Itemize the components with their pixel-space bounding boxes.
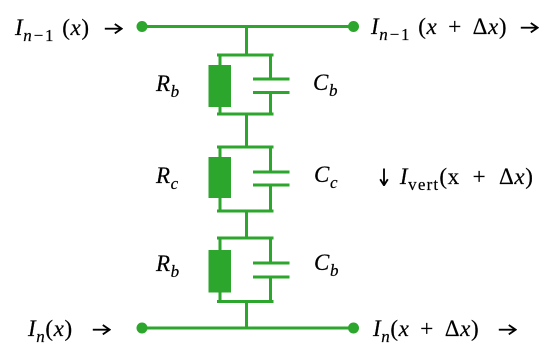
capacitor Cb (bottom) plates [253, 262, 290, 265]
wire block2 top bar [219, 146, 273, 149]
wire block1 right branch lower [269, 93, 272, 115]
label capacitor Cc middle [314, 163, 338, 186]
wire stem block1-block2 [245, 114, 248, 147]
wire block2 right branch lower [269, 185, 272, 211]
wire block3 top bar [219, 237, 273, 240]
wire block1 top bar [219, 54, 273, 57]
wire block2 left branch upper [219, 147, 222, 158]
label current In-1(x+dx) leaving top-right [371, 15, 539, 38]
wire stem top [245, 27, 248, 56]
wire block1 left branch lower [219, 106, 222, 114]
wire block3 left branch upper [219, 238, 222, 251]
wire top horizontal [142, 25, 354, 28]
node In(x) left dot [137, 323, 148, 334]
wire block1 right branch upper [269, 55, 272, 79]
capacitor Cc (middle) plates [253, 171, 290, 174]
wire bottom horizontal [142, 327, 354, 330]
node In-1(x) left dot [137, 21, 148, 32]
capacitor Cb (top) plates [253, 78, 290, 81]
resistor Rb (top) [209, 65, 232, 107]
wire stem bottom [245, 302, 248, 329]
label resistor Rc middle [156, 164, 179, 187]
label current In(x+dx) leaving bottom-right [373, 317, 517, 340]
node In(x+dx) right dot [348, 323, 359, 334]
label capacitor Cb top [313, 71, 338, 94]
wire block3 bottom bar [219, 300, 273, 303]
label resistor Rb bottom [156, 252, 180, 275]
wire block3 right branch lower [269, 277, 272, 302]
wire block2 left branch lower [219, 197, 222, 211]
resistor Rc (middle) [209, 157, 232, 198]
label current In(x) entering bottom-left [28, 317, 111, 340]
label resistor Rb top [156, 72, 180, 95]
resistor Rb (bottom) [209, 250, 232, 293]
wire block2 right branch upper [269, 147, 272, 172]
label capacitor Cb bottom [314, 251, 339, 274]
label current In-1(x) entering top-left [15, 16, 123, 39]
wire block1 left branch upper [219, 55, 222, 66]
label vertical current Ivert(x+dx) [377, 165, 533, 188]
wire block2 bottom bar [219, 210, 273, 213]
wire block3 left branch lower [219, 291, 222, 302]
wire block3 right branch upper [269, 238, 272, 263]
wire stem block2-block3 [245, 211, 248, 238]
wire block1 bottom bar [219, 113, 273, 116]
node In-1(x+dx) right dot [348, 21, 359, 32]
